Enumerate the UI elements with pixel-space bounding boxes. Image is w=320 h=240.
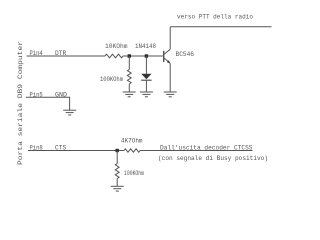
- ground G2: [140, 92, 153, 97]
- ground G3: [164, 92, 177, 97]
- wire: PTT output line: [170, 26, 271, 28]
- wire: R2 to ground: [128, 84, 130, 92]
- transistor Q1 BC546 (NPN): [164, 49, 171, 63]
- wire: D1 cathode to ground: [145, 80, 147, 92]
- diode D1 1N4148 (vertical, anode up): [141, 74, 151, 80]
- svg-text:Porta seriale DB9 Computer: Porta seriale DB9 Computer: [17, 40, 24, 165]
- wire: R1 to transistor base: [123, 55, 163, 57]
- wire: emitter down to ground: [169, 63, 171, 92]
- resistor R4 100KOhm (vertical): [115, 164, 119, 179]
- wire: CTS line from Pin8 to R3: [28, 150, 124, 152]
- svg-text:Dall'uscita decoder CTCSS: Dall'uscita decoder CTCSS: [160, 145, 253, 152]
- resistor R3 4K7Ohm (horizontal): [124, 149, 140, 152]
- wire: collector up to PTT line: [169, 27, 171, 49]
- junction node J3: [116, 149, 119, 152]
- svg-text:10KOhm: 10KOhm: [105, 43, 128, 50]
- svg-text:1N4148: 1N4148: [135, 43, 156, 50]
- ground G4: [63, 110, 76, 115]
- ground G5: [111, 186, 124, 191]
- wire: J3 down to R4: [116, 151, 118, 164]
- junction node J1: [128, 54, 131, 57]
- wire: R4 to ground: [116, 179, 118, 187]
- resistor R2 100KOhm (vertical): [127, 70, 131, 85]
- wire: DTR line from Pin4 to R1: [27, 55, 106, 57]
- svg-text:4K7Ohm: 4K7Ohm: [121, 137, 143, 144]
- svg-text:(con segnale di Busy positivo): (con segnale di Busy positivo): [158, 155, 268, 162]
- svg-text:100KOhm: 100KOhm: [124, 170, 144, 177]
- wire: GND stub from Pin5: [26, 97, 70, 110]
- svg-text:100KOhm: 100KOhm: [100, 76, 123, 83]
- wire: J2 down to diode D1: [145, 56, 147, 74]
- svg-text:BC546: BC546: [176, 51, 195, 58]
- resistor R1 10KOhm (horizontal): [105, 54, 123, 58]
- wire: J1 down to R2: [128, 56, 130, 70]
- ground G1: [123, 92, 136, 97]
- junction node J2: [145, 54, 148, 57]
- wire: R3 to CTCSS decoder output: [140, 150, 253, 152]
- svg-text:verso PTT della radio: verso PTT della radio: [177, 13, 253, 20]
